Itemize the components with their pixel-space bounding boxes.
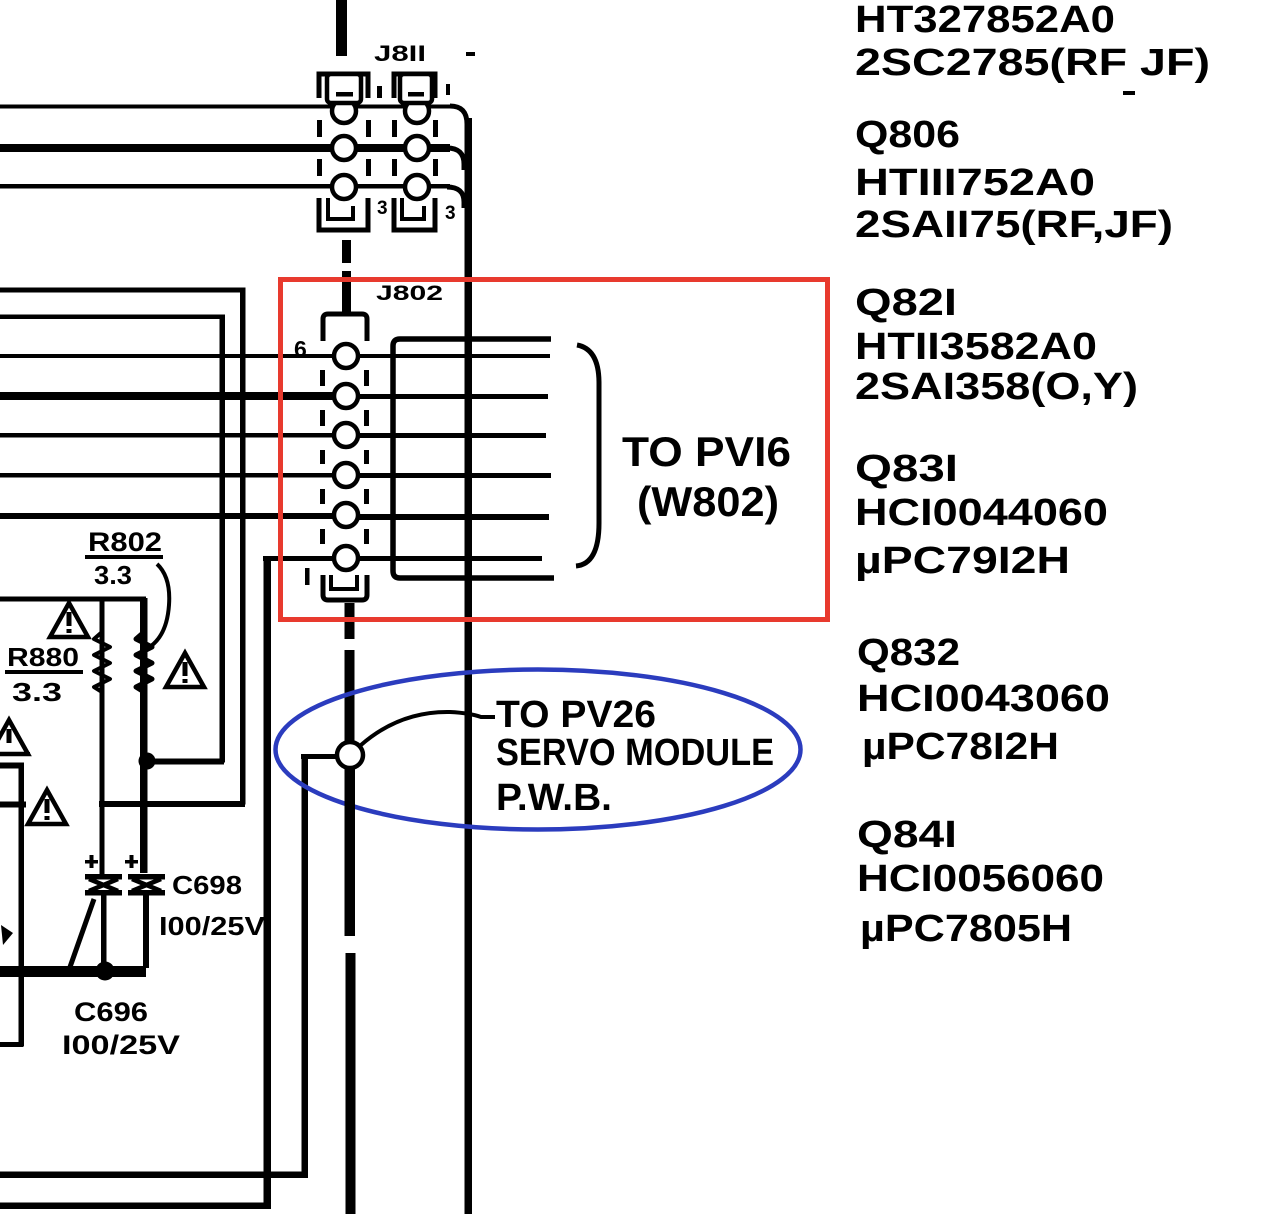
wire curve row3 into bus xyxy=(447,187,464,208)
svg-text:J802: J802 xyxy=(376,282,443,305)
J811 right half: bottom cup xyxy=(394,198,435,230)
svg-text:2SAI358(O,Y): 2SAI358(O,Y) xyxy=(855,366,1138,408)
J811 left half: pin 1 socket circle xyxy=(332,99,356,123)
servo wire horizontal to pin xyxy=(301,754,339,759)
resistor R880 zigzag xyxy=(94,632,110,692)
svg-text:6: 6 xyxy=(294,336,307,362)
J802 bracket bottom xyxy=(323,575,367,600)
junction dot on thick branch xyxy=(139,753,156,770)
warning triangle T3 (clipped) xyxy=(0,720,28,754)
J802 pin 1 circle xyxy=(334,344,358,368)
wire row2 to J811 pin 2 xyxy=(0,144,450,152)
svg-text:2SAII75(RF,JF): 2SAII75(RF,JF) xyxy=(855,204,1173,246)
J811 right half: bottom inner bracket xyxy=(402,198,424,219)
J811 left half: side rail dashes xyxy=(317,120,322,137)
svg-text:µPC79I2H: µPC79I2H xyxy=(855,540,1070,582)
svg-text:J8II: J8II xyxy=(374,41,426,66)
svg-text:(W802): (W802) xyxy=(637,478,779,525)
J811 right half: side rail dashes xyxy=(392,120,397,137)
svg-text:µPC7805H: µPC7805H xyxy=(860,908,1072,950)
wire J802 pin2 right xyxy=(358,394,548,399)
svg-text:I00/25V: I00/25V xyxy=(159,911,266,941)
wire J802 pin1 left xyxy=(0,354,334,358)
wire J802 pin4 left xyxy=(0,473,334,478)
svg-text:C696: C696 xyxy=(74,997,148,1027)
arrow mark on left edge xyxy=(1,925,13,945)
svg-text:I00/25V: I00/25V xyxy=(62,1030,180,1060)
left edge wire y805 xyxy=(0,802,26,808)
capacitor C696 symbol xyxy=(85,874,122,880)
left edge vertical xyxy=(19,763,25,1047)
diagonal wire to C696 xyxy=(70,899,94,967)
svg-text:Q83I: Q83I xyxy=(855,448,958,490)
capacitor C698 symbol xyxy=(128,874,165,880)
J802 pin 4 circle xyxy=(334,463,358,487)
wire J802 pin3 left xyxy=(0,433,334,438)
stray dash xyxy=(1123,91,1135,95)
wire A lower horizontal xyxy=(99,801,245,807)
J811 right half: pin1 dash xyxy=(408,92,424,97)
warning triangle T4 xyxy=(28,790,66,824)
pin number 1 (right half) xyxy=(446,84,450,95)
J811 left half: pin1 dash xyxy=(336,92,353,97)
bundle bracket to PV16 xyxy=(576,345,599,566)
J811 right half: pin 3 circle xyxy=(405,175,429,199)
wire J802 pin3 right xyxy=(358,433,546,438)
ground rail thick horizontal xyxy=(0,966,146,977)
left edge wire upper xyxy=(0,763,24,769)
J802 bracket top xyxy=(323,314,367,341)
capacitor C696 plus sign xyxy=(85,860,98,864)
resistor R802 zigzag xyxy=(136,632,152,692)
svg-text:HTII3582A0: HTII3582A0 xyxy=(855,326,1097,368)
J802 rail dashes right xyxy=(364,370,369,386)
svg-text:TO PVI6: TO PVI6 xyxy=(622,428,791,475)
capacitor C696 lower lead xyxy=(101,895,107,970)
bus box outline right of J802 xyxy=(393,339,554,578)
wire curve row1 into bus xyxy=(450,106,467,124)
warning triangle T2 xyxy=(166,653,204,687)
svg-text:R880: R880 xyxy=(7,642,79,672)
svg-text:SERVO MODULE: SERVO MODULE xyxy=(496,732,774,774)
J811 right half: pin1 square xyxy=(400,74,432,103)
wire stub below J811 xyxy=(342,240,351,263)
J811 left half: pin 2 circle xyxy=(332,136,356,160)
svg-text:Q82I: Q82I xyxy=(855,282,957,324)
svg-text:3: 3 xyxy=(445,203,456,224)
wire J802 pin5 right xyxy=(358,514,549,520)
svg-text:HCI0043060: HCI0043060 xyxy=(857,678,1110,720)
wire A vertical xyxy=(240,288,246,805)
svg-text:R802: R802 xyxy=(88,527,162,557)
blue highlight ellipse xyxy=(276,670,801,830)
label R880 underline xyxy=(5,670,83,674)
J811 left half: top bracket xyxy=(319,74,368,98)
J802 pin 6 circle xyxy=(334,546,358,570)
J811 left half: pin 3 circle xyxy=(332,175,356,199)
J811 right half: pin 1 socket circle xyxy=(405,99,429,123)
J811 right half: top bracket xyxy=(394,74,435,98)
R802 leader arc xyxy=(151,564,169,646)
J802 pin 5 circle xyxy=(334,503,358,527)
svg-text:Q84I: Q84I xyxy=(857,814,957,856)
svg-text:Q832: Q832 xyxy=(857,632,960,674)
svg-text:3.3: 3.3 xyxy=(94,560,132,590)
svg-text:3: 3 xyxy=(377,198,388,219)
J811 left half: pin1 square xyxy=(327,74,361,103)
wire A horizontal (top) xyxy=(0,288,245,293)
svg-text:HCI0056060: HCI0056060 xyxy=(857,858,1104,900)
wire J802 pin4 right xyxy=(358,473,551,478)
capacitor C698 plus sign xyxy=(125,860,138,864)
J802 rail dashes left xyxy=(320,370,325,386)
wire J802 pin1 right xyxy=(358,354,550,358)
wire curve row2 into bus xyxy=(447,148,464,170)
wire stub below servo pin xyxy=(345,768,356,936)
wire B lower horizontal xyxy=(146,759,224,765)
svg-text:Q806: Q806 xyxy=(855,114,960,156)
wire J802 pin5 left (thickish) xyxy=(0,513,334,519)
servo wire bottom horizontal xyxy=(0,1172,308,1179)
svg-text:P.W.B.: P.W.B. xyxy=(496,777,612,819)
svg-text:µPC78I2H: µPC78I2H xyxy=(862,726,1059,768)
svg-text:HT327852A0: HT327852A0 xyxy=(855,0,1115,41)
wire stub above J811 xyxy=(336,0,347,56)
leader curve from pin to text xyxy=(361,712,495,745)
capacitor C698 lower lead xyxy=(143,895,149,968)
stray mark right of connector xyxy=(466,52,475,56)
wire stub below J802 xyxy=(345,603,355,639)
J802 pin 3 circle xyxy=(334,423,358,447)
pin number 1 xyxy=(305,568,310,585)
svg-text:C698: C698 xyxy=(172,870,242,900)
wire J802 pin2 left (thick) xyxy=(0,392,334,400)
wire J802 pin6 left then down to bottom left xyxy=(263,556,336,561)
svg-text:3.3: 3.3 xyxy=(12,677,62,707)
svg-text:2SC2785(RF JF): 2SC2785(RF JF) xyxy=(855,42,1210,84)
label R802 underline xyxy=(85,555,163,559)
wire J802 pin6 right xyxy=(358,556,542,561)
svg-text:HCI0044060: HCI0044060 xyxy=(855,492,1108,534)
R802 branch vertical (thick) xyxy=(140,598,148,873)
svg-text:HTIII752A0: HTIII752A0 xyxy=(855,162,1095,204)
J811 left half: bottom cup xyxy=(319,198,368,230)
resistor feed wire horizontal xyxy=(0,597,146,602)
servo connection pin circle xyxy=(337,742,363,768)
mid dash between halves xyxy=(377,86,382,98)
wire B horizontal (top) xyxy=(0,315,224,320)
vertical bus wire xyxy=(465,118,473,1214)
warning triangle T1 xyxy=(50,603,88,637)
J811 left half: bottom inner bracket xyxy=(328,198,353,219)
junction dot on ground rail xyxy=(96,962,115,981)
left edge wire bottom xyxy=(0,1042,23,1047)
J811 right half: pin 2 circle xyxy=(405,136,429,160)
red highlight rectangle xyxy=(281,280,828,620)
wire row3 to J811 pin 3 xyxy=(0,184,450,189)
wire row1 to J811 pin 1 xyxy=(0,105,452,109)
servo wire vertical xyxy=(302,754,309,1178)
J802 bracket bottom inner xyxy=(331,575,357,589)
J802 pin 2 circle xyxy=(334,384,358,408)
R880 branch vertical xyxy=(100,598,105,876)
wire B vertical xyxy=(220,315,226,763)
svg-text:TO PV26: TO PV26 xyxy=(496,694,656,736)
